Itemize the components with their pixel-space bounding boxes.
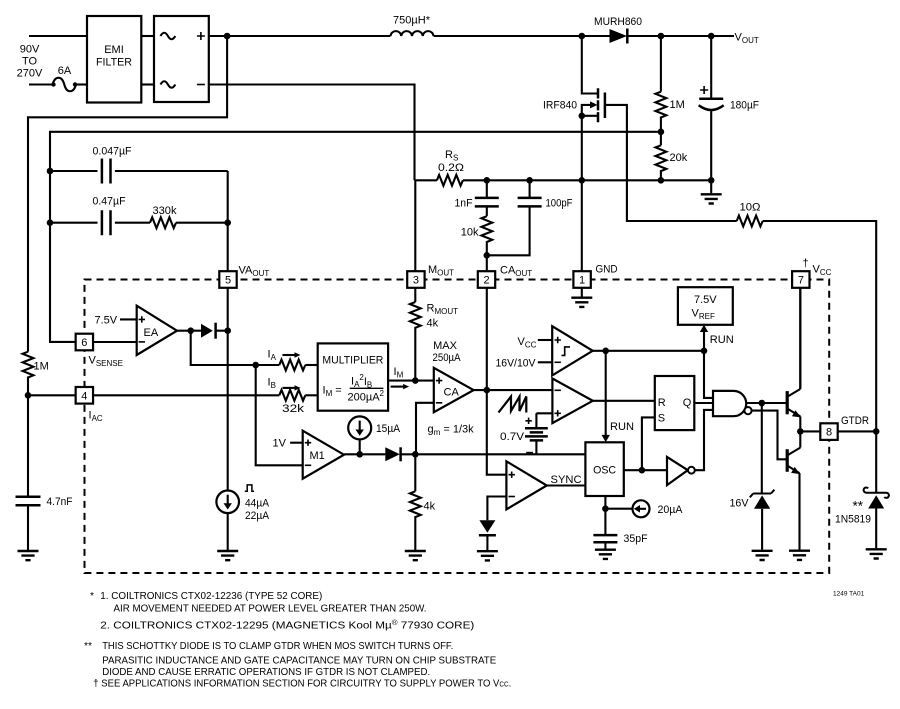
svg-text:10Ω: 10Ω — [740, 202, 761, 214]
resistor 10k — [461, 206, 492, 271]
diode MURH860 — [594, 16, 642, 44]
ground pin 1 — [581, 288, 583, 297]
capacitor 35pF timing — [593, 533, 647, 559]
comparator U3 PWM — [552, 379, 592, 424]
svg-text:*: * — [90, 591, 94, 602]
node label 1V M1 ref — [273, 438, 303, 450]
svg-text:6: 6 — [81, 337, 87, 349]
svg-text:4k: 4k — [424, 501, 436, 513]
wire RUN arrow into VREF box — [700, 325, 734, 351]
IC boundary dashed box — [85, 280, 830, 574]
node feedback tap — [658, 129, 665, 136]
node rail junctions — [484, 177, 491, 184]
svg-text:SYNC: SYNC — [551, 474, 582, 486]
svg-text:20k: 20k — [670, 152, 688, 164]
resistor IB 32k — [268, 377, 318, 416]
wire inductor to diode — [434, 35, 610, 37]
svg-text:750µH*: 750µH* — [393, 15, 431, 27]
svg-text:R: R — [658, 397, 666, 409]
current source 20uA — [605, 500, 683, 517]
node AC input 90V TO 270V — [17, 44, 43, 80]
svg-text:0.047µF: 0.047µF — [93, 146, 132, 158]
svg-text:44µA: 44µA — [245, 498, 270, 510]
wire RUN input to gate — [704, 351, 713, 398]
oscillator block OSC — [585, 442, 623, 496]
resistor 1M input sense — [23, 352, 49, 496]
wire rectified + down to left rail — [28, 36, 227, 352]
node label VCC comparator input — [518, 336, 553, 350]
flip-flop RS latch — [655, 376, 695, 430]
node VAOUT internal junction — [224, 327, 231, 334]
svg-text:330k: 330k — [153, 205, 177, 217]
node MOSFET drain junction — [579, 33, 586, 40]
pin 8 — [820, 423, 837, 440]
capacitor 100pF — [487, 180, 573, 255]
node 10k-100pF junction — [484, 252, 491, 259]
wire S input from OSC — [642, 417, 655, 470]
node junction bridge + — [224, 33, 231, 40]
svg-text:2. COILTRONICS CTX02-12295 (MA: 2. COILTRONICS CTX02-12295 (MAGNETICS Ko… — [100, 619, 474, 632]
battery 0.7V offset — [500, 413, 552, 454]
wire bridge + output to inductor — [209, 35, 391, 37]
svg-text:DIODE AND CAUSE ERRATIC OPERAT: DIODE AND CAUSE ERRATIC OPERATIONS IF GT… — [102, 667, 430, 678]
wire NAND output to driver — [746, 402, 786, 404]
transistor Q1 IRF840 MOSFET — [543, 36, 605, 180]
svg-text:7.5V: 7.5V — [694, 294, 717, 306]
wire OSC bottom node — [604, 496, 606, 535]
wire EA output — [177, 330, 228, 332]
svg-text:Q: Q — [683, 397, 692, 409]
multiplier block — [318, 343, 388, 410]
svg-text:1V: 1V — [273, 438, 287, 450]
svg-text:IM =: IM = — [323, 385, 342, 399]
comparator U2 VCC monitor with hysteresis — [552, 326, 593, 375]
svg-text:†: † — [93, 679, 99, 690]
capacitor 0.47uF compensation — [50, 196, 150, 236]
node label 16V/10V — [496, 358, 553, 370]
svg-text:OSC: OSC — [593, 465, 616, 477]
node IAC junction — [25, 392, 32, 399]
svg-text:0.7V: 0.7V — [500, 431, 525, 443]
capacitor 1nF — [455, 180, 499, 209]
node 180uF top — [708, 33, 715, 40]
wire bridge - output to sense rail — [209, 85, 415, 181]
node GTDR internal — [797, 428, 804, 435]
diode D2 1N5819 schottky clamp — [835, 487, 889, 558]
pin 6 — [76, 334, 93, 351]
svg-text:7.5V: 7.5V — [95, 315, 118, 327]
node sawtooth ramp symbol — [499, 397, 527, 413]
resistor 330k compensation — [150, 171, 228, 271]
wire CA + input — [415, 380, 434, 382]
wire inverter output up to gate — [695, 410, 713, 470]
svg-text:200µA2: 200µA2 — [348, 389, 385, 404]
wire PWM comparator output to RS flip-flop — [593, 400, 655, 402]
node CA- / M1 diode junction — [412, 451, 419, 458]
resistor divider 20k — [656, 145, 688, 180]
gate U4 NAND driver — [713, 391, 752, 416]
resistor RS 0.2ohm — [437, 149, 464, 186]
svg-text:16V: 16V — [730, 498, 750, 510]
wire diode to VOUT — [627, 35, 734, 37]
svg-text:TO: TO — [22, 56, 38, 68]
diode D3 16V zener clamp — [730, 403, 775, 560]
wire EA out to IA node — [191, 331, 280, 365]
ground output rail — [710, 180, 712, 193]
svg-text:**: ** — [84, 641, 92, 652]
svg-text:AIR MOVEMENT NEEDED AT POWER L: AIR MOVEMENT NEEDED AT POWER LEVEL GREAT… — [114, 603, 427, 614]
svg-text:5: 5 — [225, 275, 231, 287]
transistor Q3 lower driver NPN — [787, 431, 800, 549]
capacitor 0.047uF compensation — [50, 146, 228, 184]
svg-text:0.47µF: 0.47µF — [93, 196, 126, 208]
svg-text:1249 TA01: 1249 TA01 — [833, 591, 865, 598]
svg-text:MAX: MAX — [433, 340, 458, 352]
wire EMI to bridge bottom — [141, 83, 154, 85]
wire sync output to OSC — [547, 474, 586, 486]
wire CA out to PWM comparator — [474, 389, 553, 391]
wire pin 1 stub GND — [581, 180, 583, 271]
svg-text:4k: 4k — [427, 318, 439, 330]
svg-text:CA: CA — [444, 387, 460, 399]
pin 7 — [792, 271, 809, 288]
current source 15uA — [348, 416, 400, 454]
current source 44uA/22uA — [216, 485, 269, 560]
pin 3 — [407, 271, 424, 288]
wire AC line bottom left — [29, 83, 53, 85]
wire pin 3 stub MOUT — [414, 180, 416, 271]
svg-text:RUN: RUN — [710, 334, 734, 346]
svg-text:1nF: 1nF — [455, 198, 473, 210]
pin 1 — [573, 271, 590, 288]
svg-text:**: ** — [853, 499, 864, 514]
op-amp CA current amplifier — [428, 340, 475, 437]
diode sync clamp to ground — [477, 497, 507, 561]
svg-text:THIS SCHOTTKY DIODE IS TO CLAM: THIS SCHOTTKY DIODE IS TO CLAMP GTDR WHE… — [102, 641, 453, 652]
svg-text:PARASITIC INDUCTANCE AND GATE: PARASITIC INDUCTANCE AND GATE CAPACITANC… — [102, 655, 496, 666]
svg-text:20µA: 20µA — [658, 504, 684, 516]
op-amp EA error amplifier — [137, 306, 177, 355]
wire feedback line to VSENSE — [50, 132, 661, 342]
wire RUN arrow into OSC — [602, 351, 635, 442]
resistor divider 1M — [656, 36, 685, 145]
svg-text:RUN: RUN — [610, 421, 634, 433]
wire gate lead down to 10ohm — [605, 105, 737, 221]
resistor 4k to ground — [405, 454, 436, 560]
svg-text:1. COILTRONICS CTX02-12236 (TY: 1. COILTRONICS CTX02-12236 (TYPE 52 CORE… — [100, 591, 322, 602]
inverter clock buffer — [667, 457, 695, 485]
svg-text:16V/10V: 16V/10V — [496, 358, 537, 370]
svg-text:90V: 90V — [20, 44, 40, 56]
resistor IA — [268, 349, 318, 371]
wire EMI to bridge top — [141, 35, 154, 37]
svg-text:250µA: 250µA — [433, 352, 462, 364]
op-amp M1 — [303, 431, 344, 479]
wire CA - input down to 4k — [416, 403, 434, 455]
wire pin 4 stub IAC — [28, 394, 279, 396]
wire pin 5 stubs — [227, 288, 229, 331]
resistor 10ohm gate — [737, 202, 763, 227]
svg-text:4: 4 — [81, 390, 87, 402]
svg-text:1M: 1M — [34, 361, 49, 373]
svg-text:35pF: 35pF — [624, 533, 648, 545]
svg-text:8: 8 — [826, 427, 832, 439]
resistor RMOUT 4k — [410, 288, 458, 381]
svg-text:M1: M1 — [310, 450, 325, 462]
svg-text:1N5819: 1N5819 — [835, 514, 871, 526]
wire pin 6 stub VSENSE — [93, 341, 137, 343]
wire multiplier IM output — [388, 366, 415, 389]
wire M1 inverting input riser — [256, 365, 303, 465]
svg-text:6A: 6A — [58, 65, 72, 77]
svg-text:3: 3 — [413, 275, 419, 287]
svg-text:EA: EA — [144, 327, 159, 339]
svg-text:†: † — [803, 258, 809, 270]
wire fuse to EMI filter — [76, 83, 87, 85]
wire sense rail — [415, 179, 712, 181]
node 1M top — [658, 33, 665, 40]
bridge rectifier block — [154, 16, 209, 102]
node external GTDR junction — [873, 428, 880, 435]
wire GTDR to pin 8 — [800, 430, 876, 432]
inductor L1 750uH — [391, 15, 434, 37]
node label 7.5V EA ref — [95, 315, 137, 327]
diode EA output — [201, 323, 216, 339]
svg-text:MULTIPLIER: MULTIPLIER — [322, 355, 383, 367]
wire AC line top — [29, 35, 87, 37]
svg-text:7: 7 — [798, 275, 804, 287]
node comp cap taps — [47, 168, 54, 175]
capacitor 4.7nF — [16, 496, 73, 560]
wire pin 2 stub CAOUT — [486, 288, 488, 390]
svg-text:10k: 10k — [461, 227, 479, 239]
ground lower driver emitter — [789, 551, 810, 560]
svg-text:22µA: 22µA — [245, 510, 270, 522]
svg-text:32k: 32k — [282, 403, 305, 415]
svg-text:2: 2 — [483, 275, 489, 287]
fuse F1 6A — [51, 65, 77, 91]
EMI filter block — [87, 16, 141, 103]
svg-text:FILTER: FILTER — [96, 57, 132, 69]
svg-text:100pF: 100pF — [546, 198, 573, 210]
svg-text:IRF840: IRF840 — [543, 100, 577, 112]
wire OSC output to inverter — [624, 469, 667, 471]
wire 10ohm to GTDR node — [763, 221, 877, 493]
wire CAOUT down to sync comparator — [487, 390, 507, 475]
svg-text:1: 1 — [579, 275, 585, 287]
svg-text:0.2Ω: 0.2Ω — [438, 162, 464, 174]
pin 5 — [219, 271, 236, 288]
svg-text:270V: 270V — [17, 68, 43, 80]
diode M1 output — [385, 447, 400, 461]
svg-text:GTDR: GTDR — [841, 415, 869, 427]
pin 4 — [76, 387, 93, 404]
svg-text:GND: GND — [596, 264, 618, 276]
pin 2 — [478, 271, 495, 288]
svg-text:180µF: 180µF — [730, 100, 759, 112]
wire VAOUT line down to current source — [227, 331, 229, 491]
node IM junction — [412, 377, 419, 384]
capacitor 180uF output — [699, 36, 760, 180]
wire M1 output line — [344, 453, 585, 455]
svg-text:SEE APPLICATIONS INFORMATION S: SEE APPLICATIONS INFORMATION SECTION FOR… — [101, 679, 511, 690]
svg-text:15µA: 15µA — [376, 423, 401, 435]
wire Q output to gate — [694, 402, 713, 404]
wire pin 7 stub VCC — [799, 288, 801, 389]
svg-text:EMI: EMI — [104, 44, 124, 56]
svg-text:S: S — [658, 413, 665, 425]
transistor Q2 upper driver NPN — [787, 288, 801, 432]
svg-text:4.7nF: 4.7nF — [47, 496, 73, 508]
op-amp sync comparator — [506, 461, 546, 509]
voltage reference block 7.5V VREF — [678, 287, 733, 325]
svg-text:MURH860: MURH860 — [594, 16, 642, 28]
wire comparator output RUN line — [593, 350, 704, 352]
wire inverted output to lower driver — [752, 411, 787, 460]
svg-text:1M: 1M — [670, 99, 685, 111]
